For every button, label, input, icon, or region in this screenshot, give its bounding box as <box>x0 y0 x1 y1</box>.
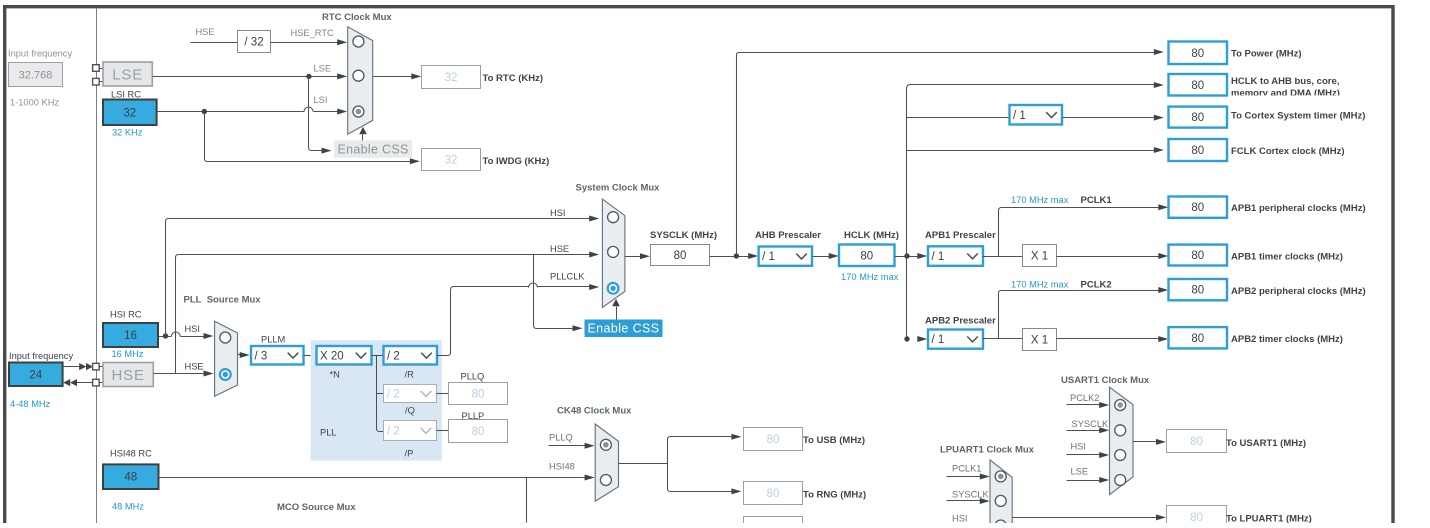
APB2 peripheral value box 80 <box>1169 279 1228 300</box>
svg-text:APB1 peripheral clocks (MHz): APB1 peripheral clocks (MHz) <box>1231 203 1366 214</box>
LSE OSC32_IN port square <box>93 65 100 72</box>
wire PCLK2 riser <box>999 291 1159 339</box>
wire LSE junction down to Enable CSS (RTC) <box>309 77 323 151</box>
APB1 peripheral value box 80 <box>1169 197 1228 218</box>
svg-text:X 1: X 1 <box>1031 335 1048 347</box>
To USART1 value box 80 <box>1167 430 1227 453</box>
HSE source box <box>103 363 153 387</box>
svg-text:HSE: HSE <box>196 27 215 37</box>
svg-text:80: 80 <box>767 434 780 446</box>
svg-text:80: 80 <box>1191 80 1204 92</box>
wire PLLCLK /R output to system mux <box>437 287 590 356</box>
svg-text:/R: /R <box>405 370 415 380</box>
wire PCLK1 riser <box>999 208 1159 257</box>
wire X1 to APB1 timer box <box>1057 256 1159 258</box>
HSE OSC_OUT arrows <box>76 382 93 384</box>
Cortex system timer prescaler / 1 <box>1010 105 1063 125</box>
junction SYSCLK/To-Power <box>734 253 739 258</box>
svg-text:/ 32: / 32 <box>244 37 263 49</box>
To Power value box 80 <box>1169 42 1228 65</box>
wire HSI48 down to MCO mux <box>526 478 528 523</box>
svg-text:To Cortex System timer (MHz): To Cortex System timer (MHz) <box>1231 110 1365 121</box>
APB2 timer multiplier X 1 <box>1023 329 1057 351</box>
HSE OSC_OUT port square <box>93 379 100 386</box>
svg-text:48 MHz: 48 MHz <box>112 502 144 512</box>
HSE input frequency box 24 <box>9 363 63 387</box>
HSE OSC_IN port square <box>93 363 100 370</box>
svg-text:HCLK to AHB bus, core,: HCLK to AHB bus, core, <box>1231 76 1339 87</box>
wire Enable CSS arrow to system mux <box>616 307 618 320</box>
wire CK48 outputs split to USB and RNG <box>619 437 732 492</box>
svg-text:To USART1 (MHz): To USART1 (MHz) <box>1226 438 1306 449</box>
svg-text:SYSCLK: SYSCLK <box>952 490 989 500</box>
svg-text:PLLQ: PLLQ <box>461 372 485 382</box>
wire Enable CSS arrow to RTC mux <box>362 135 364 141</box>
wire RTC mux output <box>373 76 412 78</box>
svg-text:MCO Source Mux: MCO Source Mux <box>277 502 356 513</box>
PLLP value box 80 <box>449 420 508 443</box>
svg-text:APB1 Prescaler: APB1 Prescaler <box>925 230 996 241</box>
wire HSE stub to /32 divider <box>191 42 238 44</box>
wire to Cortex prescaler <box>907 117 1010 119</box>
svg-text:FCLK Cortex clock (MHz): FCLK Cortex clock (MHz) <box>1231 146 1344 157</box>
svg-text:To USB (MHz): To USB (MHz) <box>803 435 865 446</box>
HSI48 RC box 48 <box>103 464 159 489</box>
LSE source box <box>103 62 152 86</box>
svg-text:80: 80 <box>1191 145 1204 157</box>
svg-text:To RTC (KHz): To RTC (KHz) <box>483 73 544 84</box>
partial value box bottom (To SDMMC) <box>744 517 803 527</box>
APB1 prescaler dropdown / 1 <box>928 246 983 265</box>
svg-text:1-1000 KHz: 1-1000 KHz <box>10 98 59 108</box>
wire PLLQ stub to CK48 mux <box>549 445 586 447</box>
svg-text:To LPUART1 (MHz): To LPUART1 (MHz) <box>1226 514 1312 523</box>
wire HCLK column up to HCLK-AHB output <box>907 85 1155 341</box>
wire PLLM to *N <box>304 355 317 357</box>
svg-text:APB2 peripheral clocks (MHz): APB2 peripheral clocks (MHz) <box>1231 286 1366 297</box>
svg-text:80: 80 <box>1191 48 1204 60</box>
svg-text:To IWDG (KHz): To IWDG (KHz) <box>483 156 550 167</box>
wire system mux output SYSCLK <box>625 256 641 258</box>
To USB value box 80 <box>744 428 803 451</box>
USART1 clock mux <box>1110 387 1134 494</box>
svg-text:/ 2: / 2 <box>387 350 400 362</box>
svg-text:CK48 Clock Mux: CK48 Clock Mux <box>557 406 632 417</box>
PLLQ value box 80 <box>449 383 508 405</box>
RTC clock mux <box>348 27 373 134</box>
svg-text:80: 80 <box>1190 512 1203 523</box>
HSE RTC divider / 32 <box>238 31 271 53</box>
APB1 timer multiplier X 1 <box>1023 245 1057 267</box>
HSI RC box 16 <box>103 323 158 347</box>
svg-text:LSI: LSI <box>314 95 328 105</box>
input frequency box 32.768 <box>9 63 63 87</box>
svg-text:PLLM: PLLM <box>261 335 285 345</box>
wire /Q to PLLQ box <box>437 393 449 395</box>
svg-text:32 KHz: 32 KHz <box>112 128 143 138</box>
svg-text:*N: *N <box>330 370 340 380</box>
wire AHB prescaler to HCLK <box>813 256 830 258</box>
SYSCLK value box 80 <box>651 245 710 266</box>
FCLK value box 80 <box>1169 139 1228 161</box>
wire PCLK1 stub to LPUART1 mux <box>947 476 981 478</box>
svg-text:PLL Source Mux: PLL Source Mux <box>184 295 262 306</box>
svg-text:HCLK (MHz): HCLK (MHz) <box>844 230 899 241</box>
svg-text:LSE: LSE <box>112 66 143 83</box>
wire SYSCLK stub to USART1 mux <box>1067 430 1101 432</box>
svg-text:PLLCLK: PLLCLK <box>550 272 585 282</box>
svg-text:170 MHz max: 170 MHz max <box>1011 279 1069 289</box>
svg-text:80: 80 <box>1191 250 1204 262</box>
wire hop PLLCLK over CSS vertical <box>529 283 538 288</box>
junction LSE/CSS <box>306 74 311 79</box>
svg-text:PLL: PLL <box>320 428 337 438</box>
svg-text:80: 80 <box>1191 333 1204 345</box>
wire LSI to RTC mux <box>157 111 339 113</box>
svg-text:HSI: HSI <box>952 514 968 524</box>
svg-text:80: 80 <box>860 250 873 262</box>
svg-text:AHB Prescaler: AHB Prescaler <box>755 230 821 241</box>
wire to FCLK output <box>907 150 1155 152</box>
PLL source mux <box>215 321 238 396</box>
HCLK value box 80 <box>839 245 895 267</box>
svg-text:X 20: X 20 <box>320 350 344 362</box>
HSE OSC_IN arrows <box>63 366 80 368</box>
junction LSI/IWDG <box>202 109 207 114</box>
svg-text:/P: /P <box>405 449 414 459</box>
svg-text:24: 24 <box>29 369 42 381</box>
svg-text:USART1 Clock Mux: USART1 Clock Mux <box>1061 375 1150 386</box>
wire HSI48 to CK48 mux <box>159 477 586 479</box>
wire USART1 mux output <box>1133 441 1157 443</box>
wire LSE to RTC mux <box>153 76 339 78</box>
svg-text:HSI RC: HSI RC <box>110 310 142 320</box>
wire HSI to PLL mux <box>159 336 204 338</box>
PLL /P divider dropdown / 2 (disabled) <box>384 421 437 441</box>
Enable CSS button (RTC, disabled) <box>334 140 412 157</box>
svg-text:HSI48 RC: HSI48 RC <box>110 449 152 459</box>
PLL /R divider dropdown / 2 <box>384 346 438 365</box>
CK48 clock mux <box>595 424 618 501</box>
To Cortex value box 80 <box>1169 107 1228 128</box>
AHB prescaler dropdown / 1 <box>759 247 812 266</box>
svg-text:80: 80 <box>674 250 687 262</box>
wire HSE riser to system mux <box>176 255 590 374</box>
wire SYSCLK stub to LPUART1 mux <box>947 500 981 502</box>
svg-text:LSE: LSE <box>314 64 332 74</box>
svg-text:80: 80 <box>1191 112 1204 124</box>
svg-text:RTC Clock Mux: RTC Clock Mux <box>322 12 392 23</box>
svg-text:PCLK1: PCLK1 <box>952 464 981 474</box>
svg-text:80: 80 <box>472 389 485 401</box>
svg-text:/ 3: / 3 <box>255 350 268 362</box>
svg-text:4-48 MHz: 4-48 MHz <box>10 399 51 409</box>
PLL *N multiplier dropdown X 20 <box>317 346 372 365</box>
svg-text:48: 48 <box>124 472 137 484</box>
wire Cortex prescaler to To Cortex box <box>1063 117 1155 119</box>
svg-text:32: 32 <box>123 107 136 119</box>
svg-text:/ 2: / 2 <box>387 389 400 401</box>
svg-text:HSI48: HSI48 <box>549 462 575 472</box>
wire HCLK to APB bus column <box>895 256 918 258</box>
svg-text:LPUART1 Clock Mux: LPUART1 Clock Mux <box>940 445 1035 456</box>
svg-text:X 1: X 1 <box>1031 251 1048 263</box>
svg-text:Enable CSS: Enable CSS <box>587 322 659 336</box>
wire SYSCLK up to To Power <box>737 53 1155 257</box>
wire X1 to APB2 timer box <box>1057 338 1159 340</box>
svg-text:APB2 Prescaler: APB2 Prescaler <box>925 315 996 326</box>
svg-text:32.768: 32.768 <box>19 70 53 82</box>
svg-text:PCLK1: PCLK1 <box>1081 195 1113 206</box>
wire HSE to PLL mux <box>154 373 204 375</box>
svg-text:80: 80 <box>767 488 780 500</box>
wire PLL mux output <box>238 354 241 356</box>
PLL block panel <box>311 340 442 460</box>
wire HSI riser to system mux <box>166 219 590 337</box>
LSI RC box 32 <box>103 100 157 126</box>
APB2 prescaler dropdown / 1 <box>928 330 983 349</box>
PLL /Q divider dropdown / 2 (disabled) <box>384 385 437 403</box>
wire PLL internal branch to /Q and /P <box>377 356 384 432</box>
svg-text:/ 1: / 1 <box>932 334 945 346</box>
wire HSE_RTC to RTC mux <box>271 42 339 44</box>
LSE OSC32_OUT port square <box>93 78 100 85</box>
svg-text:/ 1: / 1 <box>1013 110 1026 122</box>
svg-text:HSI: HSI <box>185 324 201 334</box>
svg-text:PCLK2: PCLK2 <box>1070 393 1099 403</box>
wire LSI junction down to IWDG box <box>205 112 411 162</box>
To LPUART1 value box 80 <box>1167 506 1227 528</box>
svg-text:Input frequency: Input frequency <box>8 49 72 59</box>
svg-text:PLLQ: PLLQ <box>549 433 573 443</box>
svg-text:/Q: /Q <box>405 406 415 416</box>
wire /P to PLLP box <box>437 430 449 432</box>
PLLM prescaler dropdown / 3 <box>251 346 304 365</box>
wire HSI stub to USART1 mux <box>1067 454 1101 456</box>
svg-text:/ 2: / 2 <box>387 426 400 438</box>
svg-text:APB1 timer clocks (MHz): APB1 timer clocks (MHz) <box>1231 252 1343 263</box>
svg-text:HSE: HSE <box>112 367 145 384</box>
svg-text:/ 1: / 1 <box>932 251 945 263</box>
To IWDG value box 32 <box>422 149 481 171</box>
junction HSI riser <box>163 333 168 338</box>
svg-text:16: 16 <box>124 330 137 342</box>
svg-text:HSE: HSE <box>185 362 204 372</box>
svg-text:LSI RC: LSI RC <box>111 90 141 100</box>
system clock mux <box>602 199 625 307</box>
wire PCLK2 stub to USART1 mux <box>1067 404 1101 406</box>
svg-text:HSI: HSI <box>1071 442 1087 452</box>
svg-text:/ 1: / 1 <box>762 251 775 263</box>
svg-text:To Power (MHz): To Power (MHz) <box>1231 49 1302 60</box>
svg-text:HSI: HSI <box>550 208 566 218</box>
HCLK to AHB value box 80 <box>1169 74 1228 96</box>
Enable CSS button (system, enabled) <box>585 320 663 338</box>
svg-text:80: 80 <box>472 426 485 438</box>
wire APB2 prescaler to X1 <box>983 338 1023 340</box>
To RNG value box 80 <box>744 482 803 505</box>
svg-text:32: 32 <box>445 155 458 167</box>
svg-text:LSE: LSE <box>1071 467 1089 477</box>
svg-text:System Clock Mux: System Clock Mux <box>576 182 661 193</box>
svg-text:SYSCLK (MHz): SYSCLK (MHz) <box>650 230 717 241</box>
LPUART1 clock mux <box>990 460 1012 528</box>
svg-text:80: 80 <box>1191 202 1204 214</box>
junction HCLK column APB2 <box>904 336 909 341</box>
To RTC value box 32 <box>422 66 481 89</box>
svg-text:HSE: HSE <box>550 244 569 254</box>
wire HSE down to Enable CSS (system) <box>534 255 573 329</box>
svg-text:Input frequency: Input frequency <box>9 351 73 361</box>
APB1 timer value box 80 <box>1169 245 1228 266</box>
svg-text:PCLK2: PCLK2 <box>1081 279 1112 290</box>
svg-text:80: 80 <box>1191 285 1204 297</box>
svg-text:170 MHz max: 170 MHz max <box>841 272 899 282</box>
svg-text:32: 32 <box>445 72 458 84</box>
wire hop LSI over CSS vertical <box>304 107 313 112</box>
svg-text:170 MHz max: 170 MHz max <box>1011 195 1069 205</box>
peripheral boundary separator line <box>96 8 98 523</box>
svg-text:APB2 timer clocks (MHz): APB2 timer clocks (MHz) <box>1231 334 1343 345</box>
junction HCLK column top <box>904 253 909 258</box>
wire SYSCLK to AHB prescaler <box>710 256 749 258</box>
svg-text:16 MHz: 16 MHz <box>112 349 144 359</box>
wire *N to /R <box>372 355 384 357</box>
svg-text:HSE_RTC: HSE_RTC <box>291 28 335 38</box>
wire APB1 prescaler to X1 <box>983 256 1023 258</box>
APB2 timer value box 80 <box>1169 327 1228 348</box>
svg-text:To RNG (MHz): To RNG (MHz) <box>803 490 866 501</box>
wire hop HSI over HSE riser <box>171 332 180 337</box>
wire LPUART1 mux output <box>1013 517 1157 519</box>
svg-text:Enable CSS: Enable CSS <box>338 142 409 156</box>
svg-text:SYSCLK: SYSCLK <box>1072 419 1109 429</box>
wire LSE stub to USART1 mux <box>1067 480 1101 482</box>
svg-text:80: 80 <box>1190 436 1203 448</box>
